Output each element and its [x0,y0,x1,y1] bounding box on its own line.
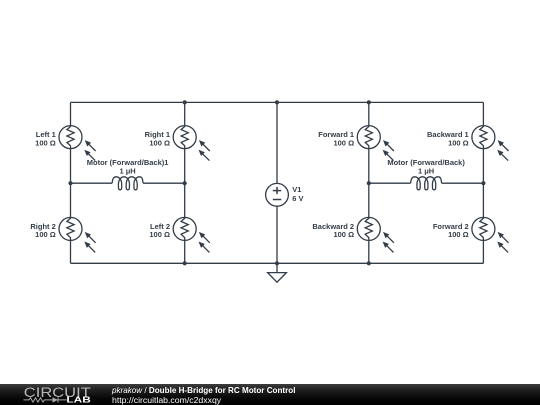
label Left 1 / 100 ohm [35,130,56,147]
label Left 2 / 100 ohm [149,222,170,239]
svg-text:1 μH: 1 μH [119,167,135,176]
label Motor (Forward/Back)1 / 1 uH [87,158,169,176]
photoresistor Backward 1 100 ohm [472,126,509,161]
wire top rail [71,101,484,103]
wire middle right (from L2) [442,182,484,184]
wire middle right (to L2) [369,182,411,184]
wire vertical right branch (Backward 1/Forward 2) [482,102,484,263]
wire bottom rail [71,262,484,264]
wire vertical V1 branch [276,102,278,263]
photoresistor Left 2 100 ohm [173,217,210,252]
label Right 1 / 100 ohm [145,130,170,147]
photoresistor Backward 2 100 ohm [357,217,394,252]
label Backward 1 / 100 ohm [427,130,469,147]
label Right 2 / 100 ohm [30,222,55,239]
voltage source V1 6V [266,183,289,206]
wire middle left (from L1) [143,182,185,184]
svg-text:pkrakow / Double H-Bridge for: pkrakow / Double H-Bridge for RC Motor C… [111,386,295,395]
svg-text:6 V: 6 V [292,194,303,203]
node middle right / branch 3 [367,181,371,185]
svg-text:100 Ω: 100 Ω [333,138,354,147]
ground [268,263,287,282]
photoresistor Left 1 100 ohm [59,126,96,161]
logo resistor-diode squiggle [24,397,67,402]
photoresistor Forward 1 100 ohm [357,126,394,161]
svg-text:http://circuitlab.com/c2dxxqy: http://circuitlab.com/c2dxxqy [112,395,222,405]
svg-text:100 Ω: 100 Ω [35,138,56,147]
wire vertical left branch (Left 1/Right 2) [70,102,72,263]
node top rail / branch 2 [183,100,187,104]
svg-text:100 Ω: 100 Ω [149,138,170,147]
svg-text:LAB: LAB [66,396,91,405]
wire vertical third branch (Forward 1/Backward 2) [368,102,370,263]
label Forward 1 / 100 ohm [318,130,354,147]
wire middle left (to L1) [71,182,113,184]
svg-text:100 Ω: 100 Ω [149,230,170,239]
svg-text:100 Ω: 100 Ω [35,230,56,239]
inductor Motor (Forward/Back)1, 1 uH [112,177,143,190]
photoresistor Forward 2 100 ohm [472,217,509,252]
photoresistor Right 1 100 ohm [173,126,210,161]
CircuitLab logo [0,382,110,405]
label Backward 2 / 100 ohm [312,222,354,239]
svg-text:V1: V1 [292,185,301,194]
node middle left / left branch [68,181,72,185]
node middle right / right branch [481,181,485,185]
svg-text:100 Ω: 100 Ω [448,230,469,239]
label Motor (Forward/Back) / 1 uH [387,158,465,176]
photoresistor Right 2 100 ohm [59,217,96,252]
svg-text:1 μH: 1 μH [418,167,434,176]
node bottom rail / branch 2 [183,261,187,265]
footer title text [110,382,540,405]
svg-text:100 Ω: 100 Ω [333,230,354,239]
wire vertical second branch (Right 1/Left 2) [184,102,186,263]
node top rail / branch 3 [367,100,371,104]
node bottom rail / V1 [275,261,279,265]
node middle left / branch 2 [183,181,187,185]
label Forward 2 / 100 ohm [433,222,469,239]
footer bar [0,384,540,405]
node top rail / V1 [275,100,279,104]
svg-text:100 Ω: 100 Ω [448,138,469,147]
node bottom rail / branch 3 [367,261,371,265]
label V1 / 6 V [292,185,303,203]
inductor Motor (Forward/Back), 1 uH [411,177,442,190]
